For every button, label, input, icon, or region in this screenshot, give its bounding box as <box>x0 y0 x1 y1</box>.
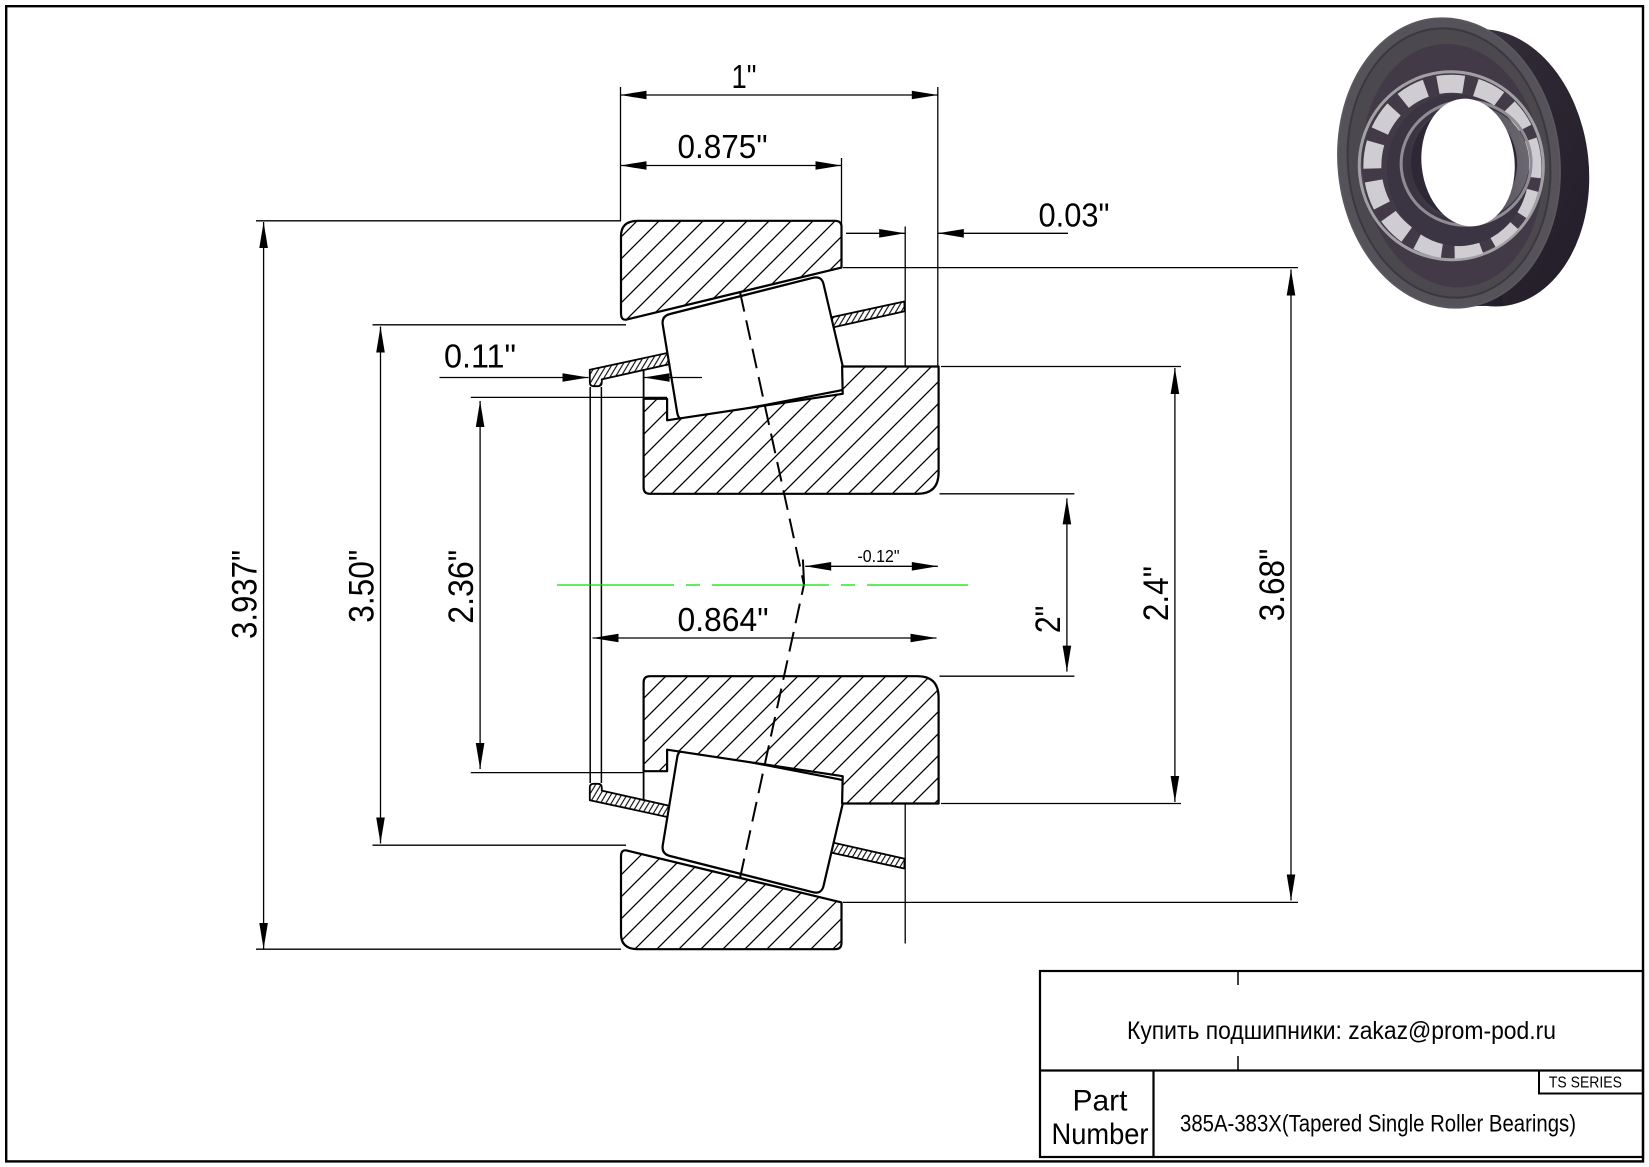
svg-text:385A-383X(Tapered Single Rolle: 385A-383X(Tapered Single Roller Bearings… <box>1180 1111 1576 1138</box>
svg-text:1": 1" <box>732 58 757 95</box>
svg-text:2": 2" <box>1029 606 1068 634</box>
svg-text:0.03": 0.03" <box>1039 197 1110 234</box>
svg-text:TS SERIES: TS SERIES <box>1549 1075 1622 1092</box>
svg-text:3.937": 3.937" <box>226 550 265 639</box>
svg-text:2.4": 2.4" <box>1137 566 1176 621</box>
svg-text:Купить подшипники: zakaz@prom-: Купить подшипники: zakaz@prom-pod.ru <box>1127 1017 1556 1045</box>
svg-text:0.864": 0.864" <box>678 601 769 638</box>
svg-text:2.36": 2.36" <box>442 550 481 624</box>
svg-text:-0.12": -0.12" <box>858 546 900 566</box>
svg-text:Number: Number <box>1052 1118 1149 1151</box>
svg-text:Part: Part <box>1073 1085 1128 1118</box>
svg-text:3.68": 3.68" <box>1253 549 1292 622</box>
svg-text:0.11": 0.11" <box>444 338 516 375</box>
svg-text:3.50": 3.50" <box>343 550 382 623</box>
svg-text:0.875": 0.875" <box>678 128 768 165</box>
